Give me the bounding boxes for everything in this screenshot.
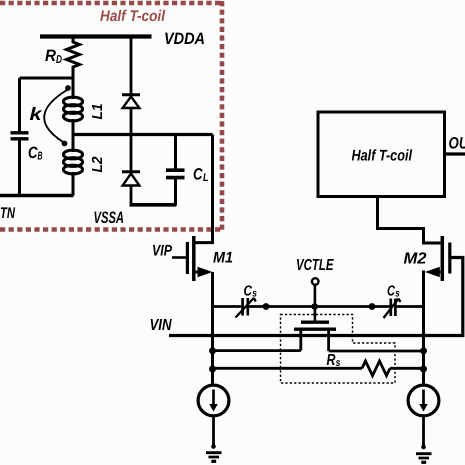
inductor L1 [63,95,82,136]
wire VIN rail to M2 gate [169,258,463,336]
coupling dot bottom (L2) [62,141,68,147]
junction node dot right varactor [369,303,376,310]
svg-text:VCTLE: VCTLE [296,257,334,274]
junction dot M1 source rail3 [209,366,216,373]
svg-text:C: C [387,284,395,300]
ground (right) [416,454,432,463]
svg-text:VDDA: VDDA [164,30,205,48]
wire mid-tap rail [73,133,213,136]
MOS triode device (variable Rs) [294,322,336,351]
ground (left) [206,453,222,462]
wire I1 to ground [212,416,215,446]
wire diode D1 to mid rail [130,108,133,172]
wire rail3 with resistor Rs [213,361,424,376]
svg-text:L1: L1 [90,104,106,120]
varactor Cs left [236,298,256,318]
svg-text:B: B [38,151,43,163]
M2 source arrow [425,267,440,277]
coupling arc k [44,90,67,142]
M1 source arrow [198,267,213,277]
svg-text:M2: M2 [404,251,427,268]
svg-text:D: D [56,54,62,66]
svg-text:M1: M1 [213,250,233,267]
varactor Cs right [384,299,401,319]
wire M1 source down to current source [211,272,214,386]
resistor RD [67,39,80,99]
wire Half T-coil box to M2 drain [378,196,441,243]
dashed box Rs network [281,315,396,384]
diode D1 (to VDDA) [122,95,140,108]
wire TN bottom (CB to L2 bottom) [0,194,74,198]
svg-text:R: R [45,47,56,65]
svg-text:Half T-coil: Half T-coil [100,8,166,25]
svg-text:C: C [244,284,253,300]
junction dot M2 source rail2 [420,347,427,354]
svg-text:VSSA: VSSA [94,209,125,227]
svg-text:VIP: VIP [152,243,173,260]
junction dot M2 source rail3 [420,366,427,373]
inductor L2 [63,134,82,196]
junction node dot left varactor [263,303,270,310]
svg-text:L: L [203,172,209,184]
wire rail MOS right to M2 source [329,350,424,353]
junction dot M1 source rail2 [209,347,216,354]
dashed box Half T-coil (left ESD network) [0,1,222,230]
junction node dot VCTLE [311,303,318,310]
wire node to CB (y=78) [20,77,74,80]
wire M2 source down to current source [424,272,426,386]
diode D2 (to VSSA) [122,172,140,186]
transistor M1 [172,236,203,281]
svg-text:s: s [336,357,341,369]
svg-text:L2: L2 [90,157,106,173]
coupling dot top (L1) [65,85,71,91]
wire t-coil mid to M1 drain [195,135,213,243]
svg-text:C: C [193,166,203,184]
capacitor CL [166,135,185,206]
svg-text:s: s [395,288,400,300]
wire VSSA bottom (diode D2 to CL) [130,203,177,207]
wire VCTLE to MOS gate [314,285,317,321]
VDDA rail [40,34,152,38]
svg-text:OUT: OUT [449,135,465,153]
wire OUT [445,152,465,155]
wire VDDA to diode D1 [130,35,133,94]
wire varactor line (M1 source to M2 source) [213,305,424,308]
transistor M2 [433,236,450,281]
VCTLE terminal circle [312,278,319,285]
wire rail M1 source to MOS left [213,349,301,352]
svg-text:R: R [327,352,336,369]
svg-text:s: s [252,288,257,300]
current source I1 [198,385,229,416]
block Half T-coil (right) [318,112,445,197]
wire diode D2 to VSSA line [130,186,133,206]
svg-text:VIN: VIN [150,317,172,334]
current source I2 [408,385,439,416]
capacitor CB [11,78,29,196]
svg-text:TN: TN [0,205,16,222]
svg-text:Half T-coil: Half T-coil [352,148,413,165]
svg-text:k: k [30,104,43,124]
wire I2 to ground [422,416,425,447]
